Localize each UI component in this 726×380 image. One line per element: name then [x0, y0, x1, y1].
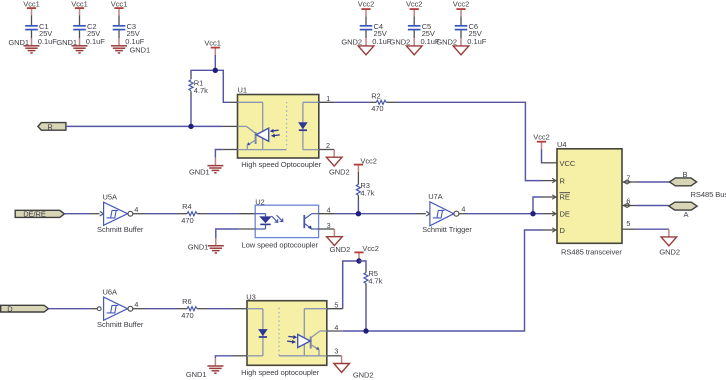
junction node R/R1 — [188, 124, 193, 129]
svg-text:U2: U2 — [255, 198, 265, 207]
wire U4 pin5 to GND2 — [637, 228, 669, 230]
wire R2 net: U1 pin1 to U4 R pin — [335, 102, 542, 180]
svg-text:GND1: GND1 — [189, 167, 210, 176]
U3 photo receiver triangle — [298, 334, 311, 347]
U2 LED D — [255, 214, 272, 229]
port flag DE/RE — [15, 210, 64, 219]
svg-text:R2: R2 — [371, 92, 381, 101]
svg-text:GND2: GND2 — [329, 168, 350, 177]
pin lead U4 DE — [542, 213, 557, 215]
svg-text:GND2: GND2 — [353, 370, 374, 379]
pin lead U4 RE — [542, 196, 557, 198]
svg-text:Vcc2: Vcc2 — [360, 157, 376, 166]
svg-text:R: R — [560, 176, 566, 185]
pin lead U4 D — [542, 229, 557, 231]
pin lead U3 bottom-left — [232, 355, 248, 357]
power Vcc2 (U3 pullup) — [354, 244, 378, 260]
pin lead U4 R — [542, 180, 557, 182]
pin lead U2 top-left — [239, 213, 256, 215]
ground GND2 (U1 pin2) — [326, 150, 349, 177]
pin lead U7A input — [416, 213, 426, 215]
power Vcc2 (C5) — [406, 0, 422, 17]
U4 bidirectional arrows pin7 pin6 — [624, 180, 631, 208]
svg-text:U1: U1 — [238, 86, 248, 95]
svg-text:470: 470 — [371, 104, 383, 113]
power Vcc2 (C4) — [358, 0, 374, 17]
power Vcc2 (C6) — [453, 0, 469, 17]
svg-text:4.7k: 4.7k — [360, 188, 374, 197]
wire U3 pin4 to U4 D pin — [343, 230, 542, 331]
svg-text:R: R — [47, 122, 53, 131]
wire U6A to R6 — [146, 308, 177, 310]
ground GND2 (U3 pin3) — [334, 356, 374, 380]
pin lead U1 mid-left — [222, 125, 238, 127]
op-amp U1 high speed optocoupler box — [238, 86, 322, 169]
svg-text:0.1uF: 0.1uF — [467, 37, 486, 46]
capacitor C3 — [113, 16, 145, 46]
svg-text:D: D — [560, 226, 566, 235]
pin lead U2 pin3 — [319, 228, 335, 230]
svg-text:4.7k: 4.7k — [368, 276, 382, 285]
svg-text:4: 4 — [134, 300, 138, 309]
U6A input bubble — [97, 307, 101, 311]
U3 phototransistor Q — [311, 337, 320, 356]
svg-text:GND2: GND2 — [390, 37, 411, 46]
svg-text:GND2: GND2 — [341, 37, 362, 46]
port flag A — [669, 202, 697, 219]
U1 photo receiver triangle — [256, 128, 269, 141]
pin lead U4 pin7 — [622, 181, 637, 183]
capacitor C4 — [360, 17, 392, 46]
capacitor C2 — [73, 16, 105, 46]
svg-text:GND1: GND1 — [56, 38, 77, 47]
svg-text:4: 4 — [461, 205, 465, 214]
capacitor C5 — [408, 17, 440, 46]
svg-text:GND1: GND1 — [188, 242, 209, 251]
svg-text:R4: R4 — [182, 202, 192, 211]
svg-text:U7A: U7A — [428, 192, 442, 201]
ground GND2 (C5) — [390, 37, 422, 54]
svg-text:D: D — [7, 305, 13, 314]
power Vcc1 (U1 pullup) — [204, 38, 220, 55]
port flag B — [670, 170, 697, 186]
U2 phototransistor Q — [304, 214, 318, 230]
svg-text:Schmitt Trigger: Schmitt Trigger — [422, 225, 472, 234]
pin lead U5A input — [90, 213, 100, 215]
pin lead U2 pin4 — [319, 213, 335, 215]
svg-text:Vcc2: Vcc2 — [362, 244, 378, 253]
capacitor C6 — [455, 17, 487, 46]
resistor R3 — [356, 172, 374, 214]
resistor R2 — [371, 92, 397, 114]
pin lead U7A output — [459, 213, 466, 215]
port flag R — [38, 122, 66, 131]
wire R6 to U3 — [207, 308, 231, 310]
U5A input arrow — [100, 211, 104, 216]
wire U2 bottom-left to GND1 — [216, 229, 239, 238]
U3 detector rail — [279, 309, 327, 356]
ground GND2 (U2 pin3) — [327, 229, 351, 254]
ground GND1 (U2) — [188, 238, 224, 253]
wire U5A to R4 — [146, 213, 177, 215]
pin lead U5A output — [133, 213, 146, 215]
svg-text:470: 470 — [181, 311, 193, 320]
svg-text:470: 470 — [181, 216, 193, 225]
svg-text:B: B — [683, 170, 688, 179]
U1 internal detector rail — [238, 102, 287, 149]
pin lead U6A input — [91, 308, 97, 310]
svg-text:VCC: VCC — [560, 159, 576, 168]
svg-text:RE: RE — [560, 193, 570, 202]
pin lead U4 VCC — [542, 162, 557, 164]
pin lead U3 pin4 — [327, 330, 343, 332]
wire R4 to U2 — [207, 213, 239, 215]
U7A input arrow — [426, 211, 430, 216]
U1 phototransistor Q — [247, 132, 256, 150]
svg-text:GND1: GND1 — [8, 38, 29, 47]
power Vcc2 (R3 pullup) — [354, 157, 377, 172]
svg-text:Vcc2: Vcc2 — [453, 0, 469, 8]
junction node DE/RE split — [530, 211, 535, 216]
svg-text:Vcc1: Vcc1 — [23, 0, 39, 8]
svg-text:Schmitt Buffer: Schmitt Buffer — [97, 320, 144, 329]
U3 isolation dashed line — [278, 308, 280, 357]
diode U2 low speed optocoupler box — [242, 198, 319, 250]
junction node Vcc1/R1 — [213, 68, 218, 73]
pin lead U3 pin3 — [327, 355, 342, 357]
U4 input arrows — [552, 178, 556, 232]
junction node Vcc2/R5 — [356, 258, 361, 263]
junction node R3/DE wire — [356, 211, 361, 216]
U1 light arrows — [270, 129, 280, 138]
U3 LED side rail — [247, 309, 263, 356]
ground GND1 (C3) — [111, 38, 150, 55]
wire net R row — [66, 125, 222, 127]
ground GND1 (C1) — [8, 38, 39, 53]
wire U4 pin7 to B — [637, 181, 670, 183]
op-amp U6A schmitt buffer — [97, 288, 144, 330]
ground GND2 (U4 pin5) — [659, 229, 680, 257]
pin lead U2 bottom-left — [239, 228, 256, 230]
svg-text:Low speed optocoupler: Low speed optocoupler — [242, 241, 319, 250]
ground GND1 (U1) — [189, 158, 223, 177]
svg-text:U4: U4 — [557, 140, 567, 149]
svg-text:5: 5 — [626, 219, 630, 228]
svg-text:GND1: GND1 — [186, 370, 207, 379]
svg-text:DE/RE: DE/RE — [23, 210, 46, 219]
pin lead U4 pin5 — [622, 228, 637, 230]
svg-text:3: 3 — [334, 347, 338, 356]
U2 light emission arrows — [272, 215, 283, 222]
pin lead U1 bottom-left — [222, 149, 237, 151]
svg-text:0.1uF: 0.1uF — [38, 37, 57, 46]
svg-text:Vcc2: Vcc2 — [358, 0, 374, 8]
pin lead U1 pin1 — [319, 101, 335, 103]
wire DE/RE to U5A — [64, 213, 90, 215]
svg-text:4: 4 — [134, 205, 138, 214]
svg-text:Schmitt Buffer: Schmitt Buffer — [97, 225, 144, 234]
svg-text:Vcc1: Vcc1 — [204, 38, 220, 47]
ground GND1 (U3) — [186, 358, 224, 379]
wire U7A to U4 DE/RE — [466, 197, 542, 214]
power Vcc1 (C2) — [71, 0, 87, 16]
wire U3 pin5 to Vcc2 node — [343, 261, 359, 309]
svg-text:Vcc2: Vcc2 — [406, 0, 422, 8]
pin lead U1 top-left — [229, 101, 238, 103]
svg-text:U6A: U6A — [103, 288, 117, 297]
U3 light arrows — [287, 335, 297, 344]
U1 LED D — [298, 122, 308, 130]
power Vcc2 (U4) — [533, 133, 549, 150]
resistor R1 — [189, 74, 208, 126]
power Vcc1 (C3) — [111, 0, 127, 16]
U4 pin name RE (active low) — [560, 193, 571, 202]
svg-text:U3: U3 — [246, 293, 256, 302]
svg-text:RS485 Bus: RS485 Bus — [691, 190, 726, 199]
ground GND2 (C4) — [341, 37, 373, 54]
U3 LED D — [258, 329, 268, 337]
svg-text:4.7k: 4.7k — [194, 86, 208, 95]
resistor R5 — [359, 261, 383, 331]
wire U4 pin6 to A — [637, 205, 669, 207]
wire U2 pin4 to U7A — [335, 213, 416, 215]
svg-text:A: A — [684, 210, 689, 219]
op-amp U5A schmitt buffer — [97, 193, 144, 235]
svg-text:R6: R6 — [182, 297, 192, 306]
svg-text:Vcc1: Vcc1 — [71, 0, 87, 8]
pin lead U1 pin2 — [319, 149, 334, 151]
svg-text:GND1: GND1 — [130, 46, 151, 55]
svg-text:GND2: GND2 — [436, 37, 457, 46]
ground GND2 (C6) — [436, 37, 468, 54]
svg-text:High speed optocoupler: High speed optocoupler — [241, 368, 320, 377]
pin lead U4 pin6 — [622, 205, 637, 207]
svg-text:Vcc2: Vcc2 — [533, 133, 549, 142]
svg-text:U5A: U5A — [103, 193, 117, 202]
U1 isolation dashed line — [286, 102, 288, 148]
svg-text:0.1uF: 0.1uF — [86, 37, 105, 46]
svg-text:RS485 transceiver: RS485 transceiver — [561, 248, 622, 257]
capacitor C1 — [25, 16, 57, 46]
junction node R5/D wire — [363, 328, 368, 333]
wire D to U6A — [49, 308, 91, 310]
wire Vcc2 to U4 VCC — [541, 149, 544, 163]
pin lead U3 pin5 — [327, 308, 343, 310]
op-amp U7A schmitt trigger — [422, 192, 472, 234]
resistor R6 — [177, 297, 207, 320]
svg-text:2: 2 — [326, 141, 330, 150]
transistor U4 RS485 transceiver box — [557, 140, 622, 256]
resistor R4 — [177, 202, 207, 225]
ground GND1 (C2) — [56, 38, 87, 53]
svg-text:Vcc1: Vcc1 — [111, 0, 127, 8]
op-amp U3 high speed optocoupler box — [241, 293, 327, 377]
wire R1 top to Vcc1 node — [191, 55, 229, 102]
pin lead U3 top-left — [231, 308, 247, 310]
svg-text:DE: DE — [560, 209, 570, 218]
power Vcc1 (C1) — [23, 0, 39, 16]
port flag D — [1, 305, 49, 314]
svg-text:High speed Optocoupler: High speed Optocoupler — [241, 160, 321, 169]
U1 LED side rail — [303, 102, 319, 149]
pin lead U6A output — [133, 308, 146, 310]
svg-text:GND2: GND2 — [330, 245, 351, 254]
svg-text:0.1uF: 0.1uF — [125, 37, 144, 46]
wire U1 bottom-left to GND1 — [215, 150, 222, 158]
svg-text:GND2: GND2 — [659, 248, 680, 257]
wire U3 bottom-left to GND1 — [215, 356, 231, 358]
